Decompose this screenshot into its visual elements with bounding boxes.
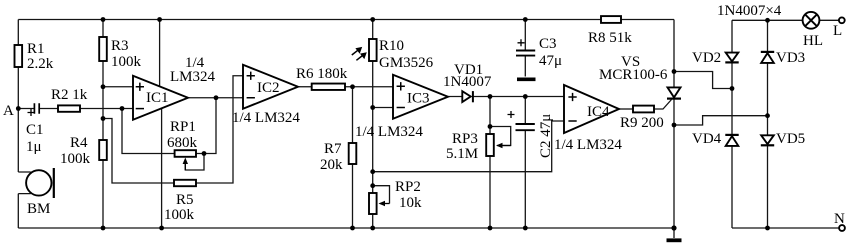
- node dot ground-C2: [523, 226, 528, 231]
- potentiometer RP2: [369, 193, 390, 214]
- node dot bridge bottom VD5: [765, 226, 770, 231]
- node dot ground-VS: [671, 225, 676, 230]
- node dot bias-plus input: [101, 84, 106, 89]
- label C2 value (rotated): [538, 114, 554, 158]
- node dot bridge top VD3: [765, 18, 770, 23]
- label R3 value: [111, 38, 142, 70]
- wire IC1 V- pin to ground: [161, 108, 163, 228]
- label L: [833, 23, 842, 39]
- node dot VD1-C2: [523, 94, 528, 99]
- svg-text:C2 47μ: C2 47μ: [538, 114, 554, 158]
- wire left column (R1 / A node / mic branch): [17, 20, 19, 229]
- wire VS thyristor column: [673, 20, 675, 229]
- label VD4: [692, 131, 722, 147]
- resistor R2: [58, 105, 80, 111]
- wire R9 to VS gate: [654, 100, 672, 110]
- node dot ground-RP2: [370, 226, 375, 231]
- label HL: [803, 33, 823, 49]
- resistor R6: [312, 84, 345, 90]
- node dot inverting input IC1: [120, 106, 125, 111]
- capacitor C3: [516, 39, 535, 55]
- photoresistor R10: [352, 39, 377, 61]
- resistor R8: [601, 16, 621, 23]
- resistor R3: [99, 37, 107, 61]
- node dot RP2 wiper tie: [370, 183, 375, 188]
- svg-text:100k: 100k: [164, 207, 195, 223]
- op-amp IC2: [243, 65, 298, 109]
- svg-text:GM3526: GM3526: [379, 55, 434, 71]
- label RP1 value: [167, 119, 198, 151]
- svg-text:R8 51k: R8 51k: [588, 30, 632, 46]
- svg-text:100k: 100k: [60, 151, 91, 167]
- label IC1: [146, 90, 169, 106]
- svg-text:IC1: IC1: [146, 90, 169, 106]
- op-amp IC4: [564, 85, 619, 133]
- svg-text:R1: R1: [27, 41, 45, 57]
- label bridge type 1N4007x4: [717, 3, 782, 19]
- ground bar below C3: [517, 78, 536, 82]
- node dot ground-R4: [101, 226, 106, 231]
- node dot RP3 wiper tie: [488, 124, 493, 129]
- label IC3 1/4 LM324: [355, 124, 423, 140]
- svg-text:C1: C1: [26, 122, 44, 138]
- thyristor VS: [667, 87, 681, 98]
- diode VD3: [761, 52, 774, 63]
- svg-text:IC2: IC2: [257, 80, 280, 96]
- svg-text:HL: HL: [803, 33, 823, 49]
- svg-text:IC3: IC3: [407, 91, 430, 107]
- capacitor C1: [28, 103, 40, 116]
- node dot RP1 wiper tie: [202, 151, 207, 156]
- label node A: [3, 103, 14, 119]
- svg-text:R4: R4: [70, 135, 88, 151]
- label C3 value: [539, 36, 562, 69]
- wire R5 right terminal up to IC2 non-inverting input: [196, 76, 243, 183]
- microphone BM: [26, 168, 54, 198]
- label IC3: [407, 91, 430, 107]
- svg-text:R5: R5: [176, 192, 194, 208]
- svg-text:N: N: [834, 211, 845, 227]
- wire IC1 non-inverting input from bias node: [103, 86, 133, 88]
- diode VD4: [725, 135, 738, 146]
- wire IC1 V+ pin to rail: [159, 20, 161, 87]
- svg-text:MCR100-6: MCR100-6: [599, 67, 668, 83]
- label IC4 1/4 LM324: [554, 137, 622, 153]
- label N: [834, 211, 845, 227]
- op-amp IC1: [133, 76, 188, 120]
- svg-text:VD3: VD3: [776, 50, 805, 66]
- svg-text:VD2: VD2: [692, 50, 721, 66]
- wire bias node to R5 left terminal: [103, 119, 174, 184]
- svg-text:R10: R10: [379, 38, 404, 54]
- op-amp IC3: [393, 75, 448, 119]
- wire IC3 inverting input: [373, 107, 393, 109]
- label IC4: [587, 104, 610, 120]
- label RP2 value: [395, 179, 422, 211]
- node dot bridge DC-: [765, 113, 770, 118]
- label RP3 value: [446, 131, 478, 162]
- svg-text:A: A: [3, 103, 14, 119]
- svg-text:100k: 100k: [111, 54, 142, 70]
- svg-text:5.1M: 5.1M: [446, 146, 478, 162]
- label R10 value: [379, 38, 434, 71]
- wire microphone stubs: [18, 172, 31, 194]
- wire IC4 output to R9: [619, 108, 633, 110]
- svg-text:1μ: 1μ: [26, 139, 42, 155]
- label VS type: [599, 54, 668, 83]
- node dot rail-V+: [157, 17, 162, 22]
- resistor R7: [349, 143, 357, 164]
- label VD3: [776, 50, 805, 66]
- diode VD1: [462, 91, 473, 102]
- label R4 value: [60, 135, 91, 167]
- svg-text:VD5: VD5: [776, 131, 805, 147]
- svg-text:1/4 LM324: 1/4 LM324: [355, 124, 423, 140]
- ground symbol at VS cathode: [667, 228, 682, 240]
- label R1 value: [27, 41, 54, 72]
- svg-text:RP3: RP3: [452, 131, 478, 147]
- svg-text:1/4 LM324: 1/4 LM324: [232, 110, 300, 126]
- svg-text:10k: 10k: [399, 195, 422, 211]
- lamp HL: [803, 12, 820, 29]
- svg-text:C3: C3: [539, 36, 557, 52]
- label R5 value: [164, 192, 195, 223]
- node dot rail-C3: [523, 17, 528, 22]
- wire RP3 column: [489, 97, 491, 229]
- wire lamp HL to L terminal: [819, 19, 839, 21]
- wire VD3/VD5 bridge column: [767, 20, 769, 228]
- svg-text:R7: R7: [324, 141, 342, 157]
- node dot ground-V-: [159, 226, 164, 231]
- node dot bias-R5 branch: [101, 116, 106, 121]
- diode VD2: [725, 53, 738, 63]
- label C1 value: [26, 122, 44, 155]
- svg-text:LM324: LM324: [170, 69, 216, 85]
- resistor R4: [99, 140, 107, 160]
- wire RP1 right terminal up to IC1 output: [196, 98, 216, 154]
- wire bottom ground rail: [18, 227, 674, 229]
- wire VS cathode to bridge DC- node: [674, 116, 768, 125]
- svg-text:47μ: 47μ: [539, 53, 562, 69]
- wire C3 column from rail: [524, 20, 526, 77]
- node dot threshold branch: [370, 169, 375, 174]
- svg-text:R9 200: R9 200: [620, 115, 664, 131]
- svg-text:IC4: IC4: [587, 104, 610, 120]
- wire IC1 output to IC2 inverting input: [188, 97, 243, 99]
- terminal N: [839, 225, 845, 231]
- svg-text:R3: R3: [111, 38, 129, 54]
- wire inverting node down to RP1 left terminal: [122, 109, 175, 154]
- node dot ground-RP3: [488, 226, 493, 231]
- label BM: [27, 201, 50, 217]
- terminal L: [839, 17, 845, 23]
- label R8 value: [588, 30, 632, 46]
- svg-text:1N4007: 1N4007: [443, 74, 492, 90]
- label VD1 value: [443, 62, 492, 90]
- svg-text:RP2: RP2: [395, 179, 421, 195]
- wire R7 column: [352, 87, 354, 228]
- wire R10 photoresistor column: [372, 20, 374, 229]
- svg-text:1/4 LM324: 1/4 LM324: [554, 137, 622, 153]
- node dot VS anode tap: [672, 69, 677, 74]
- label R6 value: [296, 66, 348, 82]
- svg-text:R6 180k: R6 180k: [296, 66, 348, 82]
- svg-text:BM: BM: [27, 201, 50, 217]
- label R9 value: [620, 115, 664, 131]
- wire top supply rail: [18, 19, 674, 21]
- wire R3/R4 bias column: [102, 20, 104, 229]
- wire A node to C1 to R2 to IC1 inverting input: [18, 108, 133, 110]
- node dot rail-R3: [101, 17, 106, 22]
- wire VD2/VD4 bridge column: [731, 20, 733, 228]
- node dot bridge DC+: [730, 86, 735, 91]
- wire C2 column: [524, 97, 526, 229]
- svg-text:R2 1k: R2 1k: [51, 87, 88, 103]
- wire threshold node to IC4 inverting input: [373, 121, 564, 172]
- node dot rail-R10: [370, 17, 375, 22]
- label R2 value: [51, 87, 88, 103]
- node dot R6-R7 junction: [350, 84, 355, 89]
- node A: [16, 106, 21, 111]
- wire R6 to IC3 non-inverting input: [345, 86, 393, 88]
- wire IC3 output through VD1 to IC4 non-inverting input: [448, 96, 564, 98]
- svg-text:20k: 20k: [320, 157, 343, 173]
- svg-text:RP1: RP1: [170, 119, 196, 135]
- node dot VS cathode tap: [672, 123, 677, 128]
- label IC2: [257, 80, 280, 96]
- svg-text:VD4: VD4: [692, 131, 722, 147]
- label IC1 1/4 LM324: [170, 55, 216, 85]
- potentiometer RP3: [486, 134, 511, 156]
- wire RP2 wiper loop: [373, 186, 390, 204]
- wire IC2 output to R6: [298, 86, 312, 88]
- capacitor C2: [508, 111, 535, 130]
- diode VD5: [761, 135, 774, 145]
- wire RP3 wiper loop: [490, 127, 511, 146]
- wire RP1 wiper loop: [185, 154, 204, 171]
- label IC2 1/4 LM324: [232, 110, 300, 126]
- node dot VD1-RP3: [488, 94, 493, 99]
- node dot IC1 output: [214, 95, 219, 100]
- potentiometer RP1: [175, 150, 196, 170]
- label R7 value: [320, 141, 343, 173]
- wire VS anode to bridge DC+ node: [674, 72, 732, 89]
- resistor R9: [633, 106, 654, 113]
- wire bridge bottom to N terminal: [732, 227, 839, 229]
- node dot IC3 inverting junction: [370, 105, 375, 110]
- resistor R1: [15, 45, 23, 67]
- svg-text:1N4007×4: 1N4007×4: [717, 3, 782, 19]
- svg-text:680k: 680k: [167, 135, 198, 151]
- svg-text:L: L: [833, 23, 842, 39]
- resistor R5: [174, 180, 196, 186]
- svg-text:2.2k: 2.2k: [27, 56, 54, 72]
- label VD5: [776, 131, 805, 147]
- node dot ground-R7: [350, 226, 355, 231]
- wire bridge top to lamp HL: [732, 19, 803, 21]
- label VD2: [692, 50, 721, 66]
